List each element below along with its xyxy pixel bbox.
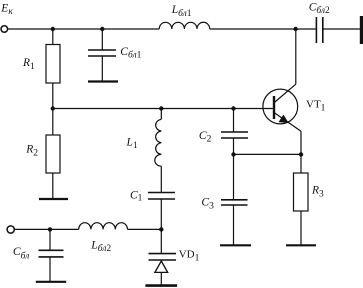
svg-text:Eк: Eк: [0, 3, 13, 17]
svg-text:Cбл1: Cбл1: [120, 46, 141, 61]
svg-text:R3: R3: [311, 185, 324, 200]
svg-text:C2: C2: [199, 130, 212, 145]
svg-text:Lбл1: Lбл1: [171, 4, 192, 19]
svg-text:L1: L1: [126, 136, 138, 151]
svg-text:C1: C1: [130, 190, 143, 204]
svg-text:R2: R2: [25, 143, 38, 158]
svg-text:Cбл2: Cбл2: [309, 2, 330, 17]
svg-text:Lбл2: Lбл2: [90, 239, 111, 254]
svg-text:R1: R1: [22, 57, 35, 72]
svg-text:Cбл: Cбл: [13, 246, 29, 261]
svg-text:VT1: VT1: [306, 99, 326, 114]
svg-text:VD1: VD1: [179, 249, 200, 264]
svg-text:C3: C3: [201, 197, 214, 212]
